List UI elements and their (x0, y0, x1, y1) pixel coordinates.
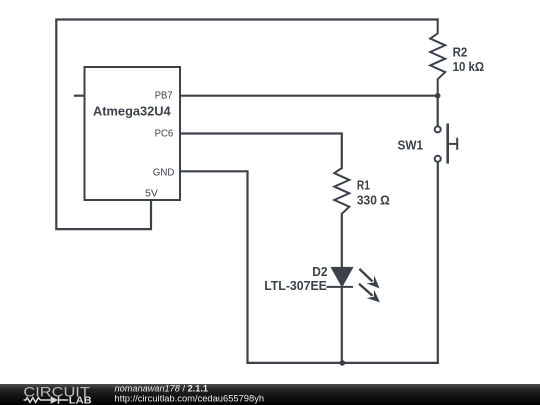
resistor R2 (430, 20, 445, 96)
wire PC6 to R1 (180, 134, 342, 169)
logo diode cathode bar (58, 396, 60, 404)
wire PB7 net (180, 95, 438, 97)
footer watermark bar (0, 384, 540, 405)
chip U1 Atmega32U4 body (85, 67, 181, 200)
wire 5V net: top rail, left rail, jog to 5V pin (56, 20, 437, 230)
wire unconnected left pin stub (75, 95, 85, 97)
svg-text:http://circuitlab.com/cedau655: http://circuitlab.com/cedau655798yh (114, 394, 264, 404)
wire SW1 bottom to rail (437, 162, 439, 363)
resistor R1 (334, 168, 349, 214)
wire GND net down (180, 171, 248, 363)
svg-text:LAB: LAB (69, 395, 92, 405)
LED light arrow 1 (356, 265, 384, 293)
wire junction to SW1 top (437, 96, 439, 127)
logo diode triangle (51, 396, 59, 404)
LED light arrow 2 (355, 280, 383, 307)
svg-text:nomanawan178 / 2.1.1: nomanawan178 / 2.1.1 (115, 383, 209, 393)
switch SW1 (435, 124, 458, 164)
wire LED to bottom rail (341, 287, 343, 363)
wire R1 to LED (341, 214, 343, 268)
wire bottom rail (248, 362, 438, 364)
node junction PB7/R2/SW1 (435, 93, 441, 99)
node junction LED / bottom rail (340, 360, 346, 366)
LED D2 triangle (332, 268, 353, 287)
logo resistor glyph (24, 396, 69, 404)
LED cathode bar (326, 286, 353, 288)
